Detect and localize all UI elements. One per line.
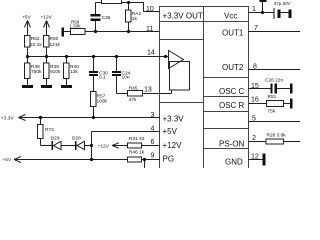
pin 1 wire bbox=[249, 0, 274, 13]
svg-text:+12V: +12V bbox=[41, 15, 53, 21]
wire pin 10 bbox=[144, 3, 160, 12]
pin 12 wire bbox=[249, 159, 263, 161]
wire divider bus to pin 14 bbox=[28, 56, 169, 58]
capacitor C36 bbox=[91, 14, 101, 16]
wire R62 to bus bbox=[27, 47, 29, 57]
wire R45 to pin 13 bbox=[143, 90, 172, 94]
svg-text:14: 14 bbox=[147, 50, 155, 57]
capacitor C24 bbox=[112, 71, 121, 73]
node R73 on +3.3V rail bbox=[39, 116, 42, 119]
capacitor C30 bbox=[89, 71, 98, 73]
IC right cell line under OUT2 bbox=[204, 77, 249, 79]
svg-text:5: 5 bbox=[252, 116, 256, 123]
wire R60 to bus bbox=[46, 47, 48, 57]
svg-text:1k: 1k bbox=[132, 16, 138, 22]
resistor R62 bbox=[25, 36, 31, 48]
svg-text:OSC C: OSC C bbox=[219, 87, 245, 96]
svg-text:8: 8 bbox=[253, 64, 257, 71]
node C36 on pin11 wire bbox=[94, 30, 97, 33]
resistor R59 bbox=[64, 29, 85, 35]
resistor R31 bbox=[128, 143, 160, 148]
termination bar pin15 bbox=[290, 84, 293, 94]
capacitor 47u thin plate bbox=[274, 8, 275, 19]
svg-text:OSC R: OSC R bbox=[219, 101, 245, 110]
off-page bar left of R59 bbox=[62, 28, 65, 37]
IC left cell line under +3.3V OUT bbox=[160, 21, 204, 23]
svg-text:15: 15 bbox=[251, 83, 259, 90]
svg-text:22.1k: 22.1k bbox=[30, 42, 42, 48]
pin 5 wire bbox=[249, 121, 301, 123]
svg-text:121k: 121k bbox=[50, 42, 61, 48]
resistor R38 bbox=[25, 57, 31, 86]
node R60/R39 on bus bbox=[45, 55, 48, 58]
svg-text:OUT2: OUT2 bbox=[222, 63, 244, 72]
resistor R40 bbox=[64, 57, 70, 86]
svg-text:4: 4 bbox=[151, 126, 155, 133]
pin 2 wire and resistor R26 bbox=[249, 139, 301, 144]
+5V power arrow top bbox=[27, 21, 29, 36]
svg-text:+3.3V OUT: +3.3V OUT bbox=[163, 12, 203, 21]
svg-text:10: 10 bbox=[146, 6, 154, 13]
resistor R60 bbox=[44, 36, 50, 48]
text labels bbox=[163, 12, 245, 167]
svg-text:+5V: +5V bbox=[3, 157, 12, 163]
wire to second cap bbox=[281, 12, 289, 14]
IC left cell line bbox=[160, 39, 204, 41]
svg-text:R73: R73 bbox=[45, 127, 54, 133]
svg-text:100k: 100k bbox=[97, 98, 108, 104]
node C30 on bus bbox=[92, 55, 95, 58]
resistor R39 bbox=[44, 57, 50, 86]
+3.3V rail arrow bbox=[19, 115, 26, 121]
svg-text:13: 13 bbox=[144, 86, 152, 93]
pin 7 wire OUT1 bbox=[249, 31, 301, 33]
wire top resistor to pin10 corner bbox=[122, 2, 144, 4]
top bar of +V stub bbox=[260, 0, 267, 2]
svg-text:+5V: +5V bbox=[163, 127, 178, 136]
svg-text:PG: PG bbox=[163, 154, 175, 163]
svg-text:9: 9 bbox=[151, 153, 155, 160]
node after R46 bbox=[143, 158, 146, 161]
capacitor C26 plate 1 bbox=[270, 84, 272, 94]
IC right cell line above GND bbox=[204, 148, 249, 150]
IC left cell line above +3.3V bbox=[160, 102, 204, 104]
svg-text:1.50k: 1.50k bbox=[70, 24, 82, 29]
svg-text:R31 43: R31 43 bbox=[129, 136, 145, 142]
svg-text:D29: D29 bbox=[51, 136, 60, 142]
node R62/R38 on bus bbox=[26, 55, 29, 58]
svg-text:C36: C36 bbox=[102, 15, 111, 21]
svg-text:47µ 50V: 47µ 50V bbox=[274, 1, 291, 6]
svg-text:C26 22n: C26 22n bbox=[265, 77, 283, 83]
pin 15 wire bbox=[249, 88, 271, 90]
pin 8 wire OUT2 bbox=[249, 69, 301, 71]
svg-text:Vcc: Vcc bbox=[224, 12, 237, 21]
resistor R46 bbox=[128, 157, 160, 168]
node C24 on bus bbox=[115, 55, 118, 58]
svg-text:+12V: +12V bbox=[98, 144, 110, 150]
svg-text:R46 1k: R46 1k bbox=[129, 150, 145, 156]
svg-text:16: 16 bbox=[251, 97, 259, 104]
IC internal column divider bbox=[203, 7, 205, 171]
pin 16 wire and resistor R51 bbox=[249, 101, 291, 107]
svg-text:75k: 75k bbox=[268, 109, 276, 115]
IC U1 box outline bbox=[160, 7, 249, 171]
svg-text:R60: R60 bbox=[50, 36, 59, 42]
capacitor 47u thick plate bbox=[278, 9, 281, 18]
svg-text:PS-ON: PS-ON bbox=[219, 139, 245, 148]
svg-text:12: 12 bbox=[251, 153, 259, 160]
ground bar pin 12 bbox=[263, 154, 266, 166]
diode D28 bbox=[75, 141, 77, 150]
resistor RA2 bbox=[126, 3, 132, 32]
ground under R39 bbox=[41, 85, 52, 88]
svg-text:R45: R45 bbox=[129, 85, 138, 91]
diode D29 bbox=[52, 141, 54, 150]
IC right cell line under OSC C bbox=[204, 96, 249, 98]
node R40 on bus bbox=[65, 55, 68, 58]
node pin14 inside box bbox=[164, 55, 167, 58]
svg-text:R26 3.6k: R26 3.6k bbox=[267, 132, 287, 138]
svg-text:1: 1 bbox=[252, 6, 256, 13]
resistor R73 bbox=[38, 118, 52, 146]
svg-text:R51: R51 bbox=[268, 94, 277, 100]
wire +5V vertical junction to pin4 line bbox=[92, 132, 160, 160]
wire C26 to bar bbox=[277, 88, 290, 90]
resistor R45 bbox=[128, 91, 143, 97]
node RA2 on pin11 wire bbox=[127, 30, 130, 33]
svg-text:10n: 10n bbox=[122, 75, 130, 81]
capacitor C26 plate 2 bbox=[275, 84, 277, 94]
IC right cell line under Vcc bbox=[204, 21, 249, 23]
resistor R57 bbox=[91, 76, 97, 118]
op-amp triangle inside U1 bbox=[169, 51, 184, 69]
svg-text:6: 6 bbox=[151, 139, 155, 146]
svg-text:+3.3V: +3.3V bbox=[1, 116, 14, 122]
second cap thick plate bbox=[289, 9, 292, 18]
svg-text:+3.3V: +3.3V bbox=[163, 114, 185, 123]
svg-text:11: 11 bbox=[146, 26, 153, 33]
svg-text:750k: 750k bbox=[31, 69, 42, 75]
svg-text:OUT1: OUT1 bbox=[222, 28, 244, 37]
IC right cell line under OSC R bbox=[204, 111, 249, 113]
+12V arrow bbox=[112, 143, 119, 148]
resistor RA1 top cut bbox=[96, 0, 122, 4]
node pin1 Vcc bbox=[261, 11, 264, 14]
wire C24 to R45 bbox=[117, 76, 128, 94]
ground under R38 bbox=[22, 85, 33, 88]
svg-text:0.1: 0.1 bbox=[99, 75, 106, 81]
svg-text:+5V: +5V bbox=[22, 15, 31, 21]
svg-text:GND: GND bbox=[225, 158, 243, 167]
svg-text:7: 7 bbox=[254, 25, 258, 32]
wire R59 to pin 11 bbox=[85, 31, 160, 33]
svg-text:47k: 47k bbox=[129, 97, 137, 103]
internal block rectangle inside U1 bbox=[170, 62, 190, 91]
svg-text:R62: R62 bbox=[31, 36, 40, 42]
IC right cell line above PS-ON bbox=[204, 128, 249, 130]
+12V power arrow top bbox=[46, 21, 48, 36]
node diode junction bbox=[90, 144, 93, 147]
+5V rail arrow bbox=[14, 157, 21, 163]
svg-text:3: 3 bbox=[151, 112, 155, 119]
svg-text:910k: 910k bbox=[50, 69, 61, 75]
svg-text:13k: 13k bbox=[70, 69, 78, 75]
ground under R40 bbox=[61, 85, 72, 88]
svg-text:2: 2 bbox=[252, 135, 256, 142]
termination bar pin16 bbox=[290, 99, 293, 109]
node RA2 top wire bbox=[127, 1, 130, 4]
node +5V rail junction bbox=[90, 158, 93, 161]
node R57 on +3.3V rail bbox=[92, 116, 95, 119]
svg-text:D28: D28 bbox=[72, 136, 81, 142]
svg-text:+12V: +12V bbox=[163, 141, 183, 150]
